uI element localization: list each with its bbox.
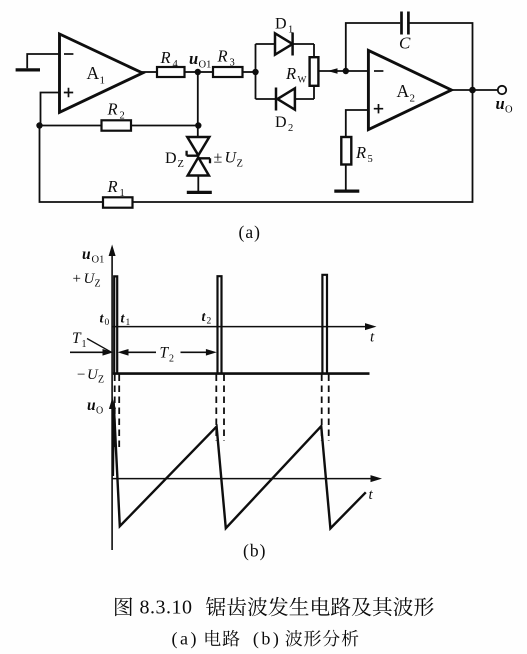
svg-text:u: u bbox=[82, 246, 91, 263]
svg-text:D: D bbox=[275, 114, 287, 131]
node output bbox=[469, 87, 476, 94]
resistor R2 bbox=[40, 100, 199, 131]
label T1 with pointer bbox=[72, 330, 112, 352]
svg-text:3: 3 bbox=[230, 58, 235, 69]
resistor R4 bbox=[157, 48, 185, 77]
resistor R1 bbox=[103, 177, 133, 208]
svg-text:2: 2 bbox=[169, 354, 174, 365]
svg-text:1: 1 bbox=[120, 188, 125, 199]
wire uO1 down to DZ bbox=[197, 72, 199, 137]
svg-text:2: 2 bbox=[207, 317, 212, 327]
svg-text:Z: Z bbox=[95, 279, 101, 290]
svg-text:(b): (b) bbox=[243, 541, 266, 561]
svg-text:O: O bbox=[505, 105, 513, 116]
dashed connector pulse 2 bbox=[216, 375, 224, 442]
ground (R5) bbox=[334, 190, 359, 193]
svg-text:D: D bbox=[275, 16, 287, 33]
node A2 inverting bbox=[343, 68, 349, 74]
wire bridge left vertical bbox=[255, 44, 257, 99]
wire wiper node to A2 bbox=[346, 70, 369, 72]
wire A2 output bbox=[451, 89, 497, 91]
diode D1 bbox=[256, 16, 315, 56]
label -UZ bbox=[77, 367, 104, 386]
svg-text:W: W bbox=[298, 76, 307, 86]
svg-text:R: R bbox=[160, 48, 171, 67]
axis uO1 vertical / uO vertical bbox=[109, 245, 116, 551]
svg-text:u: u bbox=[496, 94, 505, 113]
dashed connector pulse 1 bbox=[115, 375, 120, 452]
svg-text:1: 1 bbox=[126, 318, 131, 328]
svg-text:O: O bbox=[96, 406, 103, 417]
axis t (uO1) bbox=[112, 323, 376, 345]
svg-text:2: 2 bbox=[410, 93, 416, 105]
op-amp U1 A1 bbox=[60, 34, 143, 112]
svg-text:R: R bbox=[107, 100, 118, 119]
svg-text:1: 1 bbox=[100, 75, 106, 87]
label +UZ bbox=[73, 271, 101, 290]
svg-text:T: T bbox=[160, 345, 170, 362]
caption figure number bbox=[140, 597, 282, 650]
svg-text:Z: Z bbox=[237, 159, 243, 170]
terminal uO bbox=[496, 86, 514, 116]
label t2 bbox=[202, 310, 212, 327]
axis t (uO) bbox=[112, 475, 382, 503]
svg-text:t: t bbox=[369, 487, 374, 503]
resistor R5 bbox=[341, 110, 372, 190]
svg-text:Z: Z bbox=[98, 375, 104, 386]
wire A1 output bbox=[141, 71, 157, 73]
svg-text:1: 1 bbox=[288, 25, 293, 36]
potentiometer RW bbox=[285, 44, 346, 99]
svg-text:(a): (a) bbox=[239, 222, 261, 242]
svg-text:D: D bbox=[165, 150, 177, 167]
svg-text:2: 2 bbox=[120, 111, 125, 122]
svg-text:R: R bbox=[107, 177, 118, 196]
svg-text:R: R bbox=[217, 47, 228, 66]
svg-text:A: A bbox=[397, 81, 410, 101]
label t1 bbox=[121, 312, 131, 329]
waveform uO1 pulse 3 bbox=[322, 275, 327, 374]
svg-text:Z: Z bbox=[178, 159, 184, 170]
svg-text:±: ± bbox=[214, 150, 223, 167]
svg-text:1: 1 bbox=[82, 339, 87, 350]
waveform uO1 low level -UZ bbox=[113, 372, 370, 375]
svg-text:(a): (a) bbox=[172, 629, 199, 650]
svg-text:t: t bbox=[370, 330, 375, 346]
zener DZ bidirectional bbox=[165, 137, 210, 191]
ground (DZ) bbox=[187, 191, 212, 194]
node feedback left bbox=[36, 122, 42, 128]
node R2 / DZ bbox=[195, 122, 201, 128]
svg-text:+: + bbox=[73, 271, 81, 287]
wire C to output node bbox=[410, 23, 473, 90]
wire R1 to left rail bbox=[40, 126, 104, 203]
node uO1 bbox=[189, 49, 211, 75]
op-amp U2 A2 bbox=[368, 50, 451, 129]
svg-text:C: C bbox=[399, 34, 411, 53]
svg-text:u: u bbox=[87, 397, 96, 414]
waveform uO sawtooth bbox=[113, 403, 366, 528]
arrows and label T2 bbox=[118, 345, 217, 365]
ground (A1 inverting input) bbox=[16, 68, 40, 71]
svg-text:2: 2 bbox=[288, 123, 293, 134]
wire A1 inverting input bbox=[27, 54, 59, 68]
svg-text:T: T bbox=[72, 330, 82, 347]
svg-text:O1: O1 bbox=[199, 60, 212, 71]
wire R4 to node uO1 bbox=[185, 71, 198, 73]
wire output down to bottom rail bbox=[133, 90, 473, 202]
svg-text:R: R bbox=[355, 143, 366, 162]
svg-text:4: 4 bbox=[173, 59, 179, 70]
caption chinese text paths bbox=[115, 597, 434, 647]
svg-text:O1: O1 bbox=[92, 255, 105, 266]
svg-text:(b): (b) bbox=[253, 629, 282, 650]
resistor R3 bbox=[198, 47, 256, 78]
svg-text:5: 5 bbox=[368, 154, 373, 165]
arrow T1 bbox=[70, 349, 113, 356]
diode D2 bbox=[256, 88, 315, 135]
label uO bbox=[87, 397, 103, 417]
svg-text:A: A bbox=[87, 63, 100, 83]
label t0 bbox=[100, 312, 110, 329]
label plus-minus UZ bbox=[214, 150, 243, 170]
wire feedback up bbox=[346, 23, 400, 71]
dashed connector pulse 3 bbox=[322, 375, 329, 442]
svg-text:u: u bbox=[189, 49, 198, 68]
waveform uO1 pulse 1 bbox=[114, 276, 117, 373]
svg-text:8.3.10: 8.3.10 bbox=[140, 597, 193, 619]
wire A1 non-inverting input bbox=[41, 93, 60, 126]
capacitor C bbox=[399, 12, 411, 53]
svg-text:−: − bbox=[77, 367, 85, 383]
node bridge input bbox=[252, 69, 258, 75]
svg-text:0: 0 bbox=[105, 318, 110, 328]
svg-text:R: R bbox=[285, 64, 296, 83]
waveform uO1 pulse 2 bbox=[218, 276, 222, 373]
label uO1 bbox=[82, 246, 104, 266]
